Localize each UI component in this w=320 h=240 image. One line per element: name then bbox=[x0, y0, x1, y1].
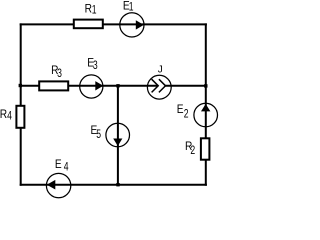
label E2 bbox=[177, 103, 189, 121]
wire row2 right segment (J to right node) bbox=[166, 85, 207, 87]
svg-text:E: E bbox=[177, 103, 184, 116]
junction node bottom (bottom wire / middle wire) bbox=[116, 183, 119, 186]
resistor R3 bbox=[39, 81, 68, 90]
svg-text:R: R bbox=[85, 3, 92, 16]
svg-text:3: 3 bbox=[93, 60, 98, 73]
label E3 bbox=[87, 57, 98, 73]
label E1 bbox=[123, 0, 134, 14]
junction node middle (row2 / middle wire) bbox=[116, 84, 119, 87]
svg-text:2: 2 bbox=[190, 145, 195, 158]
svg-text:R: R bbox=[0, 108, 7, 121]
svg-text:5: 5 bbox=[96, 129, 101, 142]
wire bottom bbox=[20, 184, 207, 186]
voltage source E2 bbox=[194, 103, 218, 127]
junction node left (row2 / left wire) bbox=[19, 84, 22, 87]
label R4 bbox=[0, 108, 12, 123]
current source J bbox=[147, 75, 171, 99]
svg-text:1: 1 bbox=[129, 1, 134, 14]
svg-text:1: 1 bbox=[92, 5, 97, 18]
wire row2 left segment (left node to J) bbox=[20, 85, 159, 87]
svg-text:4: 4 bbox=[7, 110, 12, 123]
label J bbox=[158, 65, 163, 76]
voltage source E5 bbox=[106, 123, 130, 147]
resistor R1 bbox=[74, 20, 103, 29]
label R2 bbox=[185, 140, 195, 157]
svg-text:4: 4 bbox=[64, 161, 69, 174]
resistor R2 bbox=[201, 138, 210, 159]
wire left vertical bbox=[20, 23, 22, 185]
voltage source E4 bbox=[46, 173, 70, 197]
wire right vertical bbox=[205, 23, 207, 185]
label R3 bbox=[51, 64, 62, 80]
svg-text:3: 3 bbox=[57, 68, 62, 81]
voltage source E1 bbox=[120, 13, 144, 37]
label E5 bbox=[91, 124, 102, 141]
svg-text:2: 2 bbox=[184, 108, 189, 121]
junction node right (row2 / right wire) bbox=[204, 84, 207, 87]
label E4 bbox=[55, 158, 69, 174]
svg-text:E: E bbox=[55, 158, 62, 171]
resistor R4 bbox=[16, 106, 24, 128]
label R1 bbox=[85, 3, 97, 17]
wire top (node 1 to node 2) bbox=[20, 23, 207, 25]
wire middle vertical bbox=[117, 85, 119, 186]
svg-text:J: J bbox=[158, 65, 163, 76]
voltage source E3 bbox=[80, 75, 104, 98]
